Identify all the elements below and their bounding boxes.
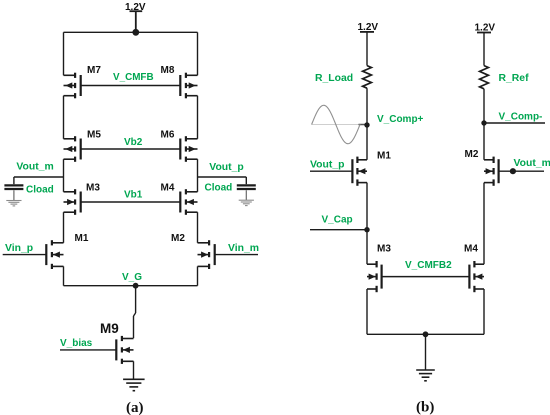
svg-text:Vin_p: Vin_p (5, 243, 33, 254)
svg-text:Vout_m: Vout_m (514, 158, 550, 169)
svg-text:M3: M3 (377, 244, 391, 255)
svg-text:Vin_m: Vin_m (228, 243, 259, 254)
svg-text:Vb2: Vb2 (124, 137, 143, 148)
svg-text:Cload: Cload (26, 184, 54, 195)
svg-text:M1: M1 (75, 233, 89, 244)
svg-text:Vout_p: Vout_p (209, 162, 243, 173)
svg-text:Vb1: Vb1 (124, 190, 143, 201)
svg-text:M8: M8 (161, 65, 175, 76)
svg-text:M4: M4 (464, 243, 478, 254)
svg-text:1.2V: 1.2V (125, 2, 146, 13)
svg-text:M6: M6 (161, 130, 175, 141)
svg-text:V_CMFB: V_CMFB (113, 72, 154, 83)
svg-text:M9: M9 (100, 321, 119, 336)
svg-text:M1: M1 (377, 151, 391, 162)
svg-text:V_Cap: V_Cap (322, 215, 353, 226)
svg-text:R_Ref: R_Ref (499, 73, 530, 84)
svg-text:M3: M3 (86, 183, 100, 194)
svg-text:M4: M4 (161, 183, 175, 194)
svg-text:M7: M7 (87, 65, 101, 76)
svg-text:V_bias: V_bias (60, 338, 93, 349)
svg-text:V_Comp+: V_Comp+ (377, 114, 424, 125)
svg-text:V_CMFB2: V_CMFB2 (405, 260, 452, 271)
svg-text:(b): (b) (416, 399, 434, 415)
svg-text:Vout_p: Vout_p (310, 159, 344, 170)
svg-text:M2: M2 (171, 233, 185, 244)
svg-text:(a): (a) (126, 400, 144, 415)
svg-text:1.2V: 1.2V (358, 22, 379, 33)
svg-text:M5: M5 (87, 130, 101, 141)
svg-text:R_Load: R_Load (315, 73, 353, 84)
svg-text:Vout_m: Vout_m (16, 161, 53, 172)
svg-text:1.2V: 1.2V (475, 22, 496, 33)
svg-text:M2: M2 (465, 149, 479, 160)
svg-text:Cload: Cload (205, 182, 233, 193)
svg-text:V_Comp-: V_Comp- (499, 111, 543, 122)
svg-text:V_G: V_G (122, 272, 142, 283)
